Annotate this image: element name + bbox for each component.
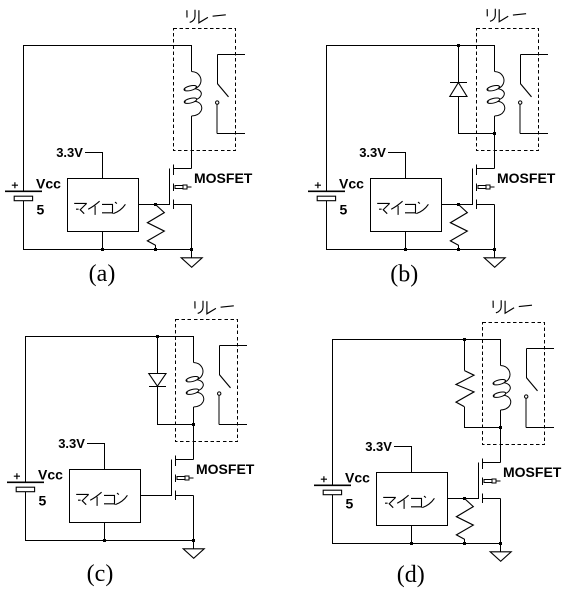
- label + (battery positive): [315, 182, 321, 188]
- wire 3.3V supply to microcontroller: [388, 153, 405, 179]
- label + (battery positive): [14, 473, 20, 479]
- svg-text:3.3V: 3.3V: [359, 145, 386, 160]
- svg-text:MOSFET: MOSFET: [497, 170, 556, 186]
- svg-text:3.3V: 3.3V: [58, 436, 85, 451]
- label + (battery positive): [321, 476, 327, 482]
- ground (b): [494, 250, 496, 258]
- svg-text:Vcc: Vcc: [36, 175, 61, 191]
- relay switch contact (a): [218, 55, 246, 84]
- ground (d): [500, 544, 502, 552]
- wire coil to MOSFET drain: [500, 410, 502, 463]
- battery Vcc 5V (d): [314, 484, 351, 486]
- junction branch top (c): [156, 335, 159, 338]
- relay switch contact (d): [527, 349, 555, 378]
- diode D (c) cathode down (reversed): [157, 337, 159, 374]
- wire bottom rail (a): [24, 201, 192, 250]
- resistor gate pulldown R (d): [456, 499, 473, 540]
- relay coil L (a): [192, 72, 201, 89]
- transistor Q (c) N-ch MOSFET: [172, 456, 194, 541]
- svg-text:MOSFET: MOSFET: [194, 170, 253, 186]
- wire microcontroller output to gate: [442, 204, 473, 206]
- svg-text:5: 5: [39, 492, 47, 508]
- svg-text:(a): (a): [89, 261, 116, 287]
- wire diode to coil bottom: [459, 97, 495, 134]
- svg-text:(c): (c): [87, 561, 114, 587]
- relay coil L (b): [495, 72, 504, 89]
- relay box (dashed) (d): [483, 323, 545, 445]
- label + (battery positive): [12, 182, 18, 188]
- wire bottom rail (c): [26, 492, 194, 541]
- junction gate-resistor top (b): [457, 203, 460, 206]
- battery Vcc 5V (b): [308, 190, 345, 192]
- microcontroller box U (a): [68, 179, 139, 232]
- wire 3.3V supply to microcontroller: [87, 444, 104, 470]
- label マイコン (microcontroller): [377, 201, 428, 215]
- relay box (dashed) (b): [477, 29, 539, 151]
- wire microcontroller output to gate: [139, 204, 170, 206]
- wire microcontroller to ground rail: [405, 232, 407, 250]
- junction gate-resistor top (d): [463, 497, 466, 500]
- transistor Q (a) N-ch MOSFET: [170, 165, 192, 250]
- junction gate-resistor bottom (d): [463, 542, 466, 545]
- svg-text:Vcc: Vcc: [345, 469, 370, 485]
- junction microcontroller-rail (b): [404, 248, 407, 251]
- resistor gate pulldown R (b): [450, 205, 467, 246]
- junction branch top (d): [463, 338, 466, 341]
- svg-text:MOSFET: MOSFET: [503, 464, 562, 480]
- wire bottom rail (d): [333, 495, 501, 544]
- svg-text:3.3V: 3.3V: [56, 145, 83, 160]
- wire microcontroller to ground rail: [104, 523, 106, 541]
- wire microcontroller to ground rail: [102, 232, 104, 250]
- wire resistor to coil bottom: [465, 407, 501, 428]
- wire microcontroller output to gate: [448, 498, 479, 500]
- wire coil to MOSFET drain: [193, 407, 195, 460]
- battery Vcc 5V (c): [7, 481, 44, 483]
- ground (c): [193, 541, 195, 549]
- microcontroller box U (d): [377, 473, 448, 526]
- label リレー (relay) (d): [493, 300, 532, 313]
- svg-text:(d): (d): [397, 562, 425, 588]
- relay switch contact (c): [220, 346, 248, 375]
- resistor gate pulldown R (a): [147, 205, 164, 246]
- svg-text:Vcc: Vcc: [339, 175, 364, 191]
- junction source-rail (a): [190, 248, 193, 251]
- label マイコン (microcontroller): [74, 201, 125, 215]
- junction microcontroller-rail (c): [103, 539, 106, 542]
- svg-text:5: 5: [37, 201, 45, 217]
- wire top rail / left rail (d): [333, 340, 501, 486]
- junction gate-resistor top (a): [154, 203, 157, 206]
- svg-text:5: 5: [346, 495, 354, 511]
- label リレー (relay) (a): [187, 10, 226, 23]
- wire coil to MOSFET drain: [494, 116, 496, 169]
- junction gate-resistor bottom (a): [154, 248, 157, 251]
- relay box (dashed) (a): [174, 29, 236, 151]
- junction gate-resistor bottom (b): [457, 248, 460, 251]
- label リレー (relay) (b): [487, 9, 526, 22]
- label リレー (relay) (c): [195, 301, 234, 314]
- relay switch contact (b): [521, 55, 549, 84]
- resistor parallel with relay coil R (d): [464, 340, 466, 371]
- wire bottom rail (b): [327, 201, 495, 250]
- junction source-rail (b): [493, 248, 496, 251]
- junction microcontroller-rail (a): [101, 248, 104, 251]
- relay box (dashed) (c): [176, 320, 238, 442]
- transistor Q (b) N-ch MOSFET: [473, 165, 495, 250]
- junction microcontroller-rail (d): [410, 542, 413, 545]
- diode flyback D (b) cathode up: [450, 46, 467, 83]
- svg-text:Vcc: Vcc: [38, 466, 63, 482]
- wire top rail / left rail (b): [327, 46, 495, 192]
- svg-text:5: 5: [340, 201, 348, 217]
- wire top rail / left rail (c): [26, 337, 194, 483]
- ground (a): [191, 250, 193, 258]
- wire coil to MOSFET drain: [191, 116, 193, 169]
- wire top rail / left rail (a): [24, 46, 192, 192]
- label マイコン (microcontroller): [383, 495, 434, 509]
- wire 3.3V supply to microcontroller: [85, 153, 102, 179]
- battery Vcc 5V (a): [5, 190, 42, 192]
- label マイコン (microcontroller): [76, 492, 127, 506]
- svg-text:3.3V: 3.3V: [365, 439, 392, 454]
- junction branch bottom (b): [493, 132, 496, 135]
- junction branch bottom (c): [192, 423, 195, 426]
- junction source-rail (c): [192, 539, 195, 542]
- wire microcontroller to ground rail: [411, 526, 413, 544]
- junction source-rail (d): [499, 542, 502, 545]
- svg-text:(b): (b): [390, 262, 418, 288]
- relay coil L (d): [501, 366, 510, 383]
- wire microcontroller output to gate: [141, 495, 172, 497]
- microcontroller box U (b): [371, 179, 442, 232]
- transistor Q (d) N-ch MOSFET: [479, 459, 501, 544]
- junction branch bottom (d): [499, 426, 502, 429]
- wire 3.3V supply to microcontroller: [394, 447, 411, 473]
- svg-text:MOSFET: MOSFET: [196, 461, 255, 477]
- junction branch top (b): [457, 44, 460, 47]
- wire diode to coil bottom: [158, 387, 194, 425]
- relay coil L (c): [194, 363, 203, 380]
- microcontroller box U (c): [70, 470, 141, 523]
